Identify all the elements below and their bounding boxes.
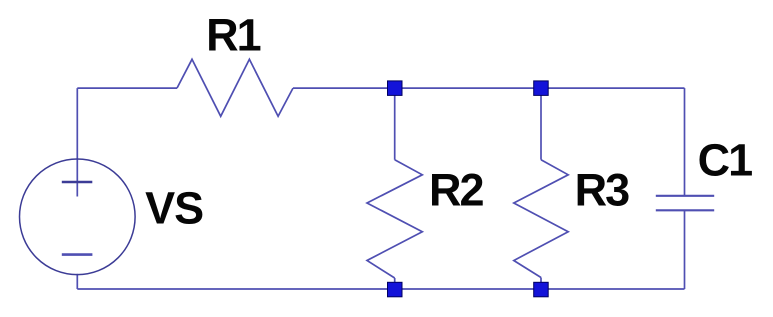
voltage source VS circle bbox=[20, 159, 136, 275]
VS minus sign bar bbox=[62, 253, 93, 256]
wire bottom rail bbox=[77, 288, 684, 290]
svg-text:C1: C1 bbox=[698, 134, 752, 185]
svg-text:R2: R2 bbox=[429, 164, 483, 215]
wire top rail right (R1 to C1 corner) bbox=[293, 87, 685, 89]
svg-text:R1: R1 bbox=[206, 9, 260, 60]
capacitor C1 top plate bbox=[656, 195, 714, 197]
wire R2 top stub bbox=[394, 88, 396, 160]
wire C1 top stub bbox=[684, 88, 686, 196]
junction node bottom right bbox=[534, 282, 549, 297]
svg-text:VS: VS bbox=[145, 182, 203, 233]
resistor R2 bbox=[367, 160, 422, 278]
capacitor C1 bottom plate bbox=[656, 209, 714, 211]
wire C1 bottom stub bbox=[684, 210, 686, 289]
svg-text:R3: R3 bbox=[575, 164, 629, 215]
resistor R3 bbox=[514, 160, 568, 278]
wire R2 bottom stub bbox=[394, 278, 396, 289]
wire top rail left (VS to R1) bbox=[77, 87, 177, 89]
wire R3 bottom stub bbox=[540, 278, 542, 290]
resistor R1 bbox=[177, 59, 293, 116]
wire VS bottom to rail bbox=[76, 274, 78, 289]
junction node bottom left bbox=[388, 282, 403, 297]
wire left vertical into VS plus stroke bbox=[76, 88, 78, 196]
junction node top right bbox=[534, 81, 549, 96]
junction node top left bbox=[388, 81, 403, 96]
wire R3 top stub bbox=[540, 88, 542, 160]
VS plus sign bar bbox=[62, 181, 93, 183]
